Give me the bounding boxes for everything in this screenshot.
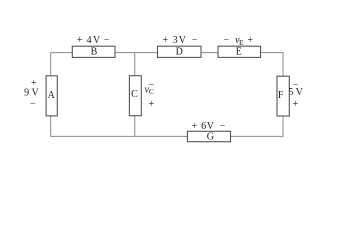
svg-text:−: − — [30, 99, 36, 110]
element C box — [129, 76, 141, 116]
svg-text:+4V−: +4V− — [77, 35, 110, 46]
element G box — [187, 131, 230, 141]
wire E to top-right corner down to F — [261, 53, 284, 77]
wire D to E — [201, 52, 218, 54]
svg-text:+6V−: +6V− — [192, 121, 226, 132]
svg-text:E: E — [236, 47, 242, 58]
element F box — [277, 76, 289, 116]
svg-text:+3V−: +3V− — [162, 35, 197, 46]
wire node above C down to C — [134, 53, 136, 76]
element A box — [46, 76, 57, 116]
svg-text:+: + — [293, 99, 299, 110]
element D box — [158, 46, 202, 57]
wire top-left segment — [51, 53, 73, 76]
svg-text:A: A — [48, 90, 56, 101]
svg-text:9 V: 9 V — [24, 87, 39, 98]
element E box — [218, 46, 261, 57]
svg-text:D: D — [176, 47, 183, 58]
svg-text:B: B — [91, 47, 98, 58]
wire B to D through node above C — [115, 52, 158, 54]
element B box — [72, 46, 115, 57]
svg-text:−vE+: −vE+ — [224, 35, 254, 47]
svg-text:+: + — [149, 99, 155, 110]
wire below C to bottom — [134, 116, 136, 137]
svg-text:C: C — [131, 89, 138, 100]
svg-text:5 V: 5 V — [288, 87, 303, 98]
svg-text:G: G — [207, 132, 214, 143]
svg-text:F: F — [278, 90, 284, 101]
wire G right to F bottom — [231, 116, 284, 136]
wire A bottom to G left — [51, 116, 188, 136]
